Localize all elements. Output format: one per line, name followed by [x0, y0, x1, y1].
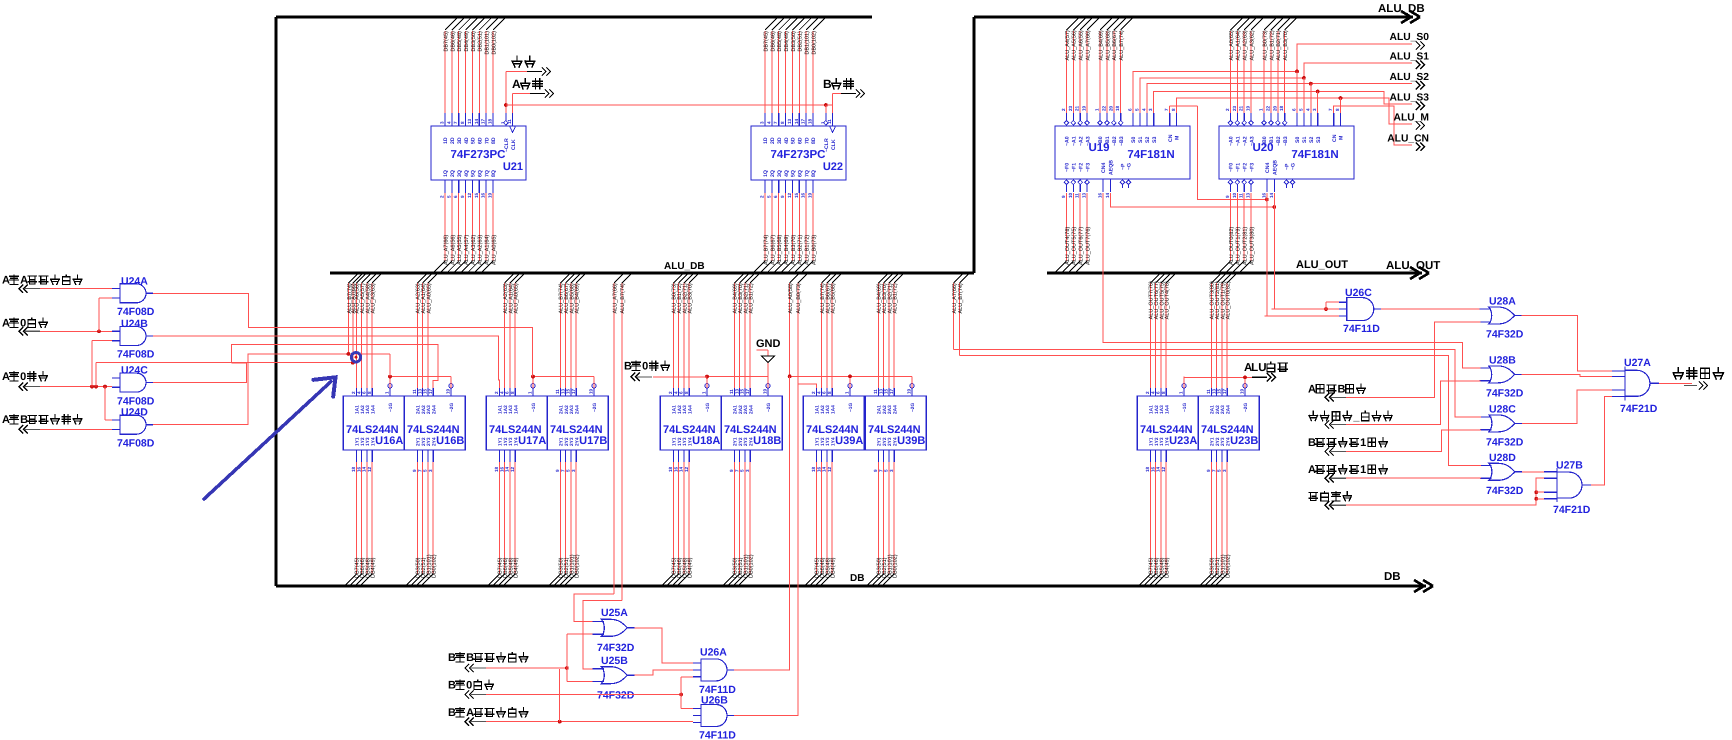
- svg-text:1: 1: [385, 391, 390, 394]
- wire U26B out: [734, 384, 816, 715]
- svg-text:17: 17: [1222, 388, 1227, 394]
- svg-text:~B2: ~B2: [1276, 136, 1282, 146]
- wire CLR U21 reset: [505, 72, 507, 114]
- svg-text:U21: U21: [503, 161, 523, 173]
- svg-text:19: 19: [763, 388, 768, 394]
- svg-text:DB4(49): DB4(49): [464, 31, 470, 52]
- svg-text:AEQB: AEQB: [1109, 160, 1115, 175]
- wire net L6: [96, 362, 353, 364]
- svg-text:S2: S2: [1145, 137, 1151, 143]
- svg-text:B: B: [448, 680, 456, 692]
- svg-text:1: 1: [1095, 108, 1100, 111]
- svg-text:DB1(101): DB1(101): [485, 31, 491, 55]
- svg-text:1: 1: [1179, 391, 1184, 394]
- wire bundle rip into U18A: [673, 274, 682, 283]
- svg-text:17: 17: [745, 388, 750, 394]
- label unconditional-jump: [1309, 492, 1318, 500]
- svg-text:DB0(102): DB0(102): [491, 31, 497, 55]
- svg-text:2A4: 2A4: [892, 405, 898, 414]
- svg-text:ALU_A0(65): ALU_A0(65): [514, 283, 520, 313]
- svg-text:~1G: ~1G: [705, 403, 711, 412]
- svg-text:ALU_A7(66): ALU_A7(66): [613, 283, 619, 313]
- svg-text:3: 3: [760, 121, 765, 124]
- bus: ALU_OUT bus: [1047, 271, 1422, 274]
- svg-text:15: 15: [794, 192, 799, 198]
- wire bundle ALU_A into U20: [1230, 18, 1242, 30]
- svg-text:ALU_B3(70): ALU_B3(70): [688, 283, 694, 313]
- svg-text:DB: DB: [1384, 571, 1401, 583]
- svg-text:~CLR: ~CLR: [504, 138, 510, 152]
- svg-text:6Q: 6Q: [477, 170, 483, 177]
- svg-text:DB1(101): DB1(101): [805, 31, 811, 55]
- svg-text:13: 13: [1246, 192, 1251, 198]
- chip U23A 74LS244N: [1137, 396, 1198, 450]
- svg-text:U: U: [1258, 362, 1266, 374]
- wire U20 CN4 down: [1266, 193, 1268, 316]
- svg-text:15: 15: [884, 388, 889, 394]
- svg-text:4: 4: [673, 391, 678, 394]
- and4-gate U27A 74F21D: [1624, 366, 1626, 400]
- svg-text:M: M: [1175, 136, 1181, 140]
- svg-text:1A3: 1A3: [365, 405, 371, 414]
- svg-text:ALU_B1(72): ALU_B1(72): [749, 283, 755, 313]
- svg-text:S3: S3: [1316, 137, 1322, 143]
- svg-text:4: 4: [816, 391, 821, 394]
- svg-text:18: 18: [351, 466, 356, 472]
- svg-text:DB: DB: [850, 573, 864, 584]
- svg-text:16: 16: [1150, 466, 1155, 472]
- svg-text:74F32D: 74F32D: [1486, 387, 1524, 399]
- svg-text:ALU_B3(70): ALU_B3(70): [791, 235, 797, 265]
- svg-text:ALU_OUT: ALU_OUT: [1296, 259, 1348, 271]
- svg-text:ALU_B0(73): ALU_B0(73): [811, 235, 817, 265]
- svg-text:~A2: ~A2: [1078, 136, 1084, 146]
- svg-text:U26C: U26C: [1345, 287, 1372, 299]
- wire rip ALU_A7 to jump logic: [954, 274, 963, 283]
- svg-text:4: 4: [1305, 108, 1310, 111]
- svg-text:~G: ~G: [1291, 163, 1297, 170]
- svg-text:CLK: CLK: [511, 139, 517, 150]
- svg-text:2Q: 2Q: [770, 170, 776, 177]
- svg-text:ALU_B3(70): ALU_B3(70): [1283, 30, 1289, 60]
- svg-text:2: 2: [1225, 108, 1230, 111]
- bus arrow ALU_OUT: [1410, 267, 1429, 279]
- svg-text:0: 0: [466, 680, 472, 692]
- wire B-0-right up to U26A in3: [680, 677, 682, 709]
- wire A-B-msb-left to U24D: [40, 428, 112, 430]
- wire bundle U21 out to ALU_DB bus: [444, 193, 446, 261]
- wire U16 output-enable tie: [390, 376, 451, 378]
- bus: top DB bus left segment: [276, 15, 872, 18]
- svg-text:1: 1: [702, 391, 707, 394]
- svg-text:1: 1: [1360, 464, 1366, 476]
- svg-text:ALU_A0(65): ALU_A0(65): [426, 283, 432, 313]
- svg-text:DB0(102): DB0(102): [893, 554, 899, 578]
- svg-text:ALU_M: ALU_M: [1394, 112, 1429, 123]
- svg-text:10: 10: [1068, 192, 1073, 198]
- svg-text:S0: S0: [1295, 137, 1301, 143]
- or-gate U28A 74F32D: [1489, 307, 1515, 324]
- svg-text:U17B: U17B: [579, 435, 607, 447]
- svg-text:15: 15: [1217, 388, 1222, 394]
- svg-text:2: 2: [494, 391, 499, 394]
- svg-text:5: 5: [1134, 108, 1139, 111]
- svg-text:B: B: [624, 361, 632, 373]
- svg-text:18: 18: [668, 466, 673, 472]
- svg-text:~1G: ~1G: [848, 403, 854, 412]
- svg-text:CN4: CN4: [1265, 163, 1271, 173]
- svg-text:~A3: ~A3: [1249, 136, 1255, 146]
- wire bundle ALU_B into U20: [1264, 18, 1276, 30]
- svg-text:13: 13: [1211, 388, 1216, 394]
- svg-text:1A4: 1A4: [370, 405, 376, 414]
- wire bundle DB into U22 top: [765, 18, 777, 30]
- svg-text:ALU_A5(56): ALU_A5(56): [1072, 30, 1078, 60]
- svg-text:2Y4: 2Y4: [892, 437, 898, 446]
- wire ALU_S0 net: [1133, 44, 1412, 113]
- svg-text:2Y4: 2Y4: [1225, 437, 1231, 446]
- svg-text:1Y4: 1Y4: [1164, 437, 1170, 446]
- svg-text:ALU_OUT3(80): ALU_OUT3(80): [1250, 227, 1256, 265]
- chip U17A 74LS244N: [486, 396, 547, 450]
- chip U39B 74LS244N: [865, 396, 926, 450]
- svg-text:15: 15: [423, 388, 428, 394]
- svg-text:ALU_A0(58): ALU_A0(58): [788, 283, 794, 313]
- svg-text:2A3: 2A3: [887, 405, 893, 414]
- wire U18 output-enable tie: [707, 376, 768, 378]
- svg-text:DB7(45): DB7(45): [763, 31, 769, 52]
- svg-text:2: 2: [811, 391, 816, 394]
- svg-text:2Y4: 2Y4: [574, 437, 580, 446]
- svg-text:9: 9: [1206, 469, 1211, 472]
- svg-text:ALU_B2(71): ALU_B2(71): [1276, 30, 1282, 60]
- wire U24D in1 link: [104, 387, 106, 420]
- wire bundle U17A outputs to DB bus: [498, 462, 500, 574]
- svg-text:ALU_OUT1(79): ALU_OUT1(79): [1236, 227, 1242, 265]
- wire U25A out to U26A in1: [634, 628, 693, 663]
- svg-text:B: B: [20, 414, 28, 426]
- bus: top DB bus right segment: [974, 15, 1413, 18]
- svg-text:~2G: ~2G: [449, 403, 455, 412]
- svg-text:5D: 5D: [791, 137, 797, 144]
- wire U25B link from B-A line: [559, 669, 561, 722]
- wire U24D output net L4: [153, 354, 390, 425]
- svg-text:3: 3: [1222, 469, 1227, 472]
- svg-text:18: 18: [1115, 105, 1120, 111]
- svg-text:9: 9: [412, 469, 417, 472]
- clock marker U22 CLK: [830, 126, 836, 133]
- wire bundle U19 F out to ALU_OUT bus: [1065, 193, 1067, 261]
- svg-text:6: 6: [773, 195, 778, 198]
- label fuwei (reset): [512, 56, 522, 67]
- svg-text:~B0: ~B0: [1262, 136, 1268, 146]
- svg-text:DB4(49): DB4(49): [831, 557, 837, 578]
- svg-text:19: 19: [487, 192, 492, 198]
- svg-text:~2G: ~2G: [766, 403, 772, 412]
- arrow ALU_S1: [1416, 61, 1425, 69]
- arrow B-B-msb-right: [465, 664, 474, 672]
- svg-text:U16B: U16B: [436, 435, 464, 447]
- svg-text:74F08D: 74F08D: [117, 349, 155, 361]
- svg-text:16: 16: [816, 466, 821, 472]
- svg-text:14: 14: [505, 466, 510, 472]
- bus arrow ALU_DB top right: [1401, 11, 1420, 23]
- svg-text:3: 3: [428, 469, 433, 472]
- wire U19 CN to U20 CN4: [1169, 106, 1171, 113]
- junction at U22 CLR: [824, 103, 828, 107]
- svg-text:ALU_OUT7(76): ALU_OUT7(76): [1086, 227, 1092, 265]
- svg-text:1Y2: 1Y2: [503, 437, 509, 446]
- arrow ALU-output: [1252, 376, 1267, 378]
- chip U20 74F181N: [1219, 126, 1354, 179]
- wire U24B in2 link: [91, 341, 93, 387]
- svg-text:12: 12: [827, 466, 832, 472]
- svg-text:B: B: [1308, 437, 1316, 449]
- svg-text:2Y1: 2Y1: [1210, 437, 1216, 446]
- svg-text:ALU_B1(72): ALU_B1(72): [893, 283, 899, 313]
- svg-text:23: 23: [1068, 105, 1073, 111]
- svg-text:8: 8: [1335, 108, 1340, 111]
- or-gate U28C 74F32D: [1489, 415, 1515, 432]
- svg-text:~P: ~P: [1121, 163, 1127, 170]
- svg-text:17: 17: [428, 388, 433, 394]
- svg-text:ALU_A0(65): ALU_A0(65): [491, 235, 497, 265]
- svg-text:ALU_OUT4(78): ALU_OUT4(78): [1065, 227, 1071, 265]
- svg-text:~F0: ~F0: [1229, 163, 1235, 172]
- wire net to U28B in1: [1461, 343, 1463, 368]
- svg-text:5: 5: [766, 195, 771, 198]
- svg-text:1: 1: [1360, 437, 1366, 449]
- svg-text:16: 16: [1261, 192, 1266, 198]
- wire A-eq-B to U28A in2: [1346, 322, 1481, 398]
- bus: DB bottom bus: [276, 584, 1426, 587]
- svg-text:~F1: ~F1: [1236, 163, 1242, 172]
- svg-text:74F32D: 74F32D: [1486, 436, 1524, 448]
- svg-text:~F2: ~F2: [1078, 163, 1084, 172]
- svg-text:1Q: 1Q: [443, 170, 449, 177]
- wire rip ALU_A7 for U25A: [614, 274, 623, 283]
- svg-text:2Y3: 2Y3: [743, 437, 749, 446]
- svg-text:7: 7: [453, 121, 458, 124]
- svg-text:ALU_B7(74): ALU_B7(74): [958, 283, 964, 313]
- svg-text:11: 11: [507, 119, 512, 124]
- wire U24A output net L1: [153, 293, 532, 376]
- svg-text:18: 18: [487, 118, 492, 124]
- svg-text:1Y1: 1Y1: [498, 437, 504, 446]
- svg-text:B: B: [1337, 384, 1345, 396]
- svg-text:ALU_B7(74): ALU_B7(74): [763, 235, 769, 265]
- wire B-A-lsb-right line: [486, 721, 693, 723]
- wire ripB7 net to U28D in1: [960, 356, 1481, 466]
- svg-text:3D: 3D: [777, 137, 783, 144]
- svg-text:ALU_A3(63): ALU_A3(63): [371, 283, 377, 313]
- svg-text:ALU_B0(73): ALU_B0(73): [1262, 30, 1268, 60]
- svg-text:ALU_B4(69): ALU_B4(69): [575, 283, 581, 313]
- svg-text:2Y3: 2Y3: [426, 437, 432, 446]
- wire ALU_S1 net: [1140, 63, 1412, 113]
- arrow B-msb: [1325, 447, 1334, 455]
- svg-text:~B1: ~B1: [1269, 136, 1275, 146]
- svg-text:ALU_OUT2(81): ALU_OUT2(81): [1243, 227, 1249, 265]
- svg-text:~A2: ~A2: [1242, 136, 1248, 146]
- svg-text:U17A: U17A: [518, 435, 546, 447]
- svg-text:ALU_OUT6(77): ALU_OUT6(77): [1079, 227, 1085, 265]
- arrow reset out: [527, 71, 542, 73]
- svg-text:S1: S1: [1302, 137, 1308, 143]
- wire bundle rip into U18B: [734, 274, 743, 283]
- svg-text:1A1: 1A1: [498, 405, 504, 414]
- arrow ALU_M: [1416, 121, 1425, 129]
- svg-text:~2G: ~2G: [592, 403, 598, 412]
- wire U20 CN4 to U26C in3: [1265, 315, 1339, 317]
- bus: left vertical DB bus: [274, 17, 277, 586]
- svg-text:A: A: [512, 77, 521, 91]
- svg-text:~F1: ~F1: [1072, 163, 1078, 172]
- svg-text:17: 17: [801, 118, 806, 124]
- svg-text:1Y1: 1Y1: [672, 437, 678, 446]
- svg-text:1A2: 1A2: [677, 405, 683, 414]
- svg-text:B: B: [448, 707, 456, 719]
- ground symbol: [761, 356, 775, 363]
- svg-text:74F181N: 74F181N: [1127, 149, 1174, 161]
- svg-text:ALU_S3: ALU_S3: [1390, 93, 1430, 104]
- svg-text:3: 3: [571, 469, 576, 472]
- wire bundle rip into U39A: [822, 274, 831, 283]
- svg-text:8: 8: [1171, 108, 1176, 111]
- svg-text:ALU_B1(72): ALU_B1(72): [805, 235, 811, 265]
- svg-text:U24C: U24C: [121, 365, 148, 377]
- svg-text:11: 11: [1239, 193, 1244, 198]
- svg-text:13: 13: [560, 388, 565, 394]
- or-gate U25A 74F32D: [601, 619, 627, 636]
- svg-text:CN: CN: [1168, 134, 1174, 142]
- svg-text:U28B: U28B: [1489, 354, 1516, 366]
- and4-gate U27B 74F21D: [1556, 468, 1558, 502]
- svg-text:2A4: 2A4: [748, 405, 754, 414]
- arrow B-latch out: [841, 93, 856, 95]
- svg-text:A: A: [2, 414, 10, 426]
- svg-text:7D: 7D: [804, 137, 810, 144]
- svg-text:19: 19: [589, 388, 594, 394]
- bus: ALU_DB horizontal bus: [330, 271, 974, 274]
- svg-text:74F32D: 74F32D: [597, 642, 635, 654]
- wire bundle rip into U39B: [878, 274, 887, 283]
- svg-text:2: 2: [1061, 108, 1066, 111]
- svg-text:DB4(49): DB4(49): [371, 557, 377, 578]
- wire U25 in2 links: [566, 634, 568, 681]
- svg-text:ALU_OUT5(75): ALU_OUT5(75): [1072, 227, 1078, 265]
- svg-text:1A3: 1A3: [682, 405, 688, 414]
- svg-text:2: 2: [760, 195, 765, 198]
- svg-text:9: 9: [873, 469, 878, 472]
- svg-text:2A2: 2A2: [1215, 405, 1221, 414]
- wire U39 output-enable tie: [790, 375, 912, 377]
- svg-text:ALU_S2: ALU_S2: [1390, 72, 1430, 83]
- svg-text:ALU_A6(56): ALU_A6(56): [450, 235, 456, 265]
- svg-text:18: 18: [811, 466, 816, 472]
- svg-text:~P: ~P: [1285, 163, 1291, 170]
- svg-text:ALU_CN: ALU_CN: [1387, 133, 1429, 144]
- wire A-msb to U28D in2: [1346, 477, 1481, 479]
- arrow A-0-right: [19, 327, 28, 335]
- svg-text:1: 1: [1259, 108, 1264, 111]
- svg-text:74F32D: 74F32D: [597, 690, 635, 702]
- svg-text:2A4: 2A4: [431, 405, 437, 414]
- svg-text:U23A: U23A: [1169, 435, 1197, 447]
- svg-text:3: 3: [1312, 108, 1317, 111]
- svg-text:ALU_DB: ALU_DB: [1378, 3, 1425, 15]
- svg-text:~A0: ~A0: [1229, 136, 1235, 146]
- svg-text:1Y1: 1Y1: [815, 437, 821, 446]
- svg-text:5: 5: [566, 469, 571, 472]
- svg-text:74F21D: 74F21D: [1620, 403, 1658, 415]
- svg-text:1A1: 1A1: [1149, 405, 1155, 414]
- svg-text:ALU_B5(68): ALU_B5(68): [831, 283, 837, 313]
- svg-text:2Y3: 2Y3: [887, 437, 893, 446]
- svg-text:~A0: ~A0: [1065, 136, 1071, 146]
- wire ALU_M net: [1177, 98, 1413, 124]
- wire bundle rip into U23A: [1150, 274, 1159, 283]
- svg-text:11: 11: [412, 389, 417, 394]
- wire A-0-left to U24C: [40, 386, 112, 388]
- svg-text:74F273PC: 74F273PC: [771, 149, 826, 161]
- svg-text:DB2(51): DB2(51): [478, 31, 484, 52]
- svg-text:3: 3: [889, 469, 894, 472]
- svg-text:ALU_B6(67): ALU_B6(67): [1112, 30, 1118, 60]
- svg-text:7: 7: [1211, 469, 1216, 472]
- svg-text:1A4: 1A4: [830, 405, 836, 414]
- svg-text:U24A: U24A: [121, 276, 148, 288]
- arrow ALU_S3: [1416, 102, 1425, 110]
- svg-text:2: 2: [1145, 391, 1150, 394]
- svg-text:2D: 2D: [450, 137, 456, 144]
- svg-text:1A3: 1A3: [825, 405, 831, 414]
- svg-text:~B0: ~B0: [1098, 136, 1104, 146]
- svg-text:U24D: U24D: [121, 407, 148, 419]
- svg-text:DB0(102): DB0(102): [432, 554, 438, 578]
- wire ripA7 net to U28C in1: [954, 349, 1481, 417]
- svg-text:8D: 8D: [811, 137, 817, 144]
- svg-text:2A3: 2A3: [743, 405, 749, 414]
- svg-text:10: 10: [1232, 192, 1237, 198]
- wire ALU_S3 net: [1154, 92, 1412, 114]
- wire U25B out to U26A in2: [634, 670, 693, 675]
- svg-text:8: 8: [827, 391, 832, 394]
- svg-text:1Y2: 1Y2: [820, 437, 826, 446]
- svg-text:8Q: 8Q: [491, 170, 497, 177]
- wire ALU_S2 net: [1147, 84, 1412, 113]
- svg-text:ALU_S1: ALU_S1: [1390, 52, 1430, 63]
- svg-text:5: 5: [884, 469, 889, 472]
- wire U24C output net L3: [153, 363, 247, 383]
- wire bundle U18B outputs to DB bus: [733, 462, 735, 574]
- svg-text:14: 14: [474, 118, 479, 124]
- svg-text:ALU_B0(73): ALU_B0(73): [796, 283, 802, 313]
- svg-text:6Q: 6Q: [797, 170, 803, 177]
- svg-text:U26A: U26A: [700, 647, 727, 659]
- svg-text:2Y1: 2Y1: [877, 437, 883, 446]
- wire U26A out: [734, 376, 790, 670]
- arrow borrow: [1325, 420, 1334, 428]
- svg-text:7: 7: [1164, 108, 1169, 111]
- svg-text:74F11D: 74F11D: [699, 730, 736, 740]
- svg-text:7Q: 7Q: [484, 170, 490, 177]
- arrow A-B-msb-left: [19, 425, 28, 433]
- svg-text:DB3(50): DB3(50): [791, 31, 797, 52]
- svg-text:~A1: ~A1: [1072, 136, 1078, 146]
- svg-text:5Q: 5Q: [791, 170, 797, 177]
- svg-text:1D: 1D: [443, 137, 449, 144]
